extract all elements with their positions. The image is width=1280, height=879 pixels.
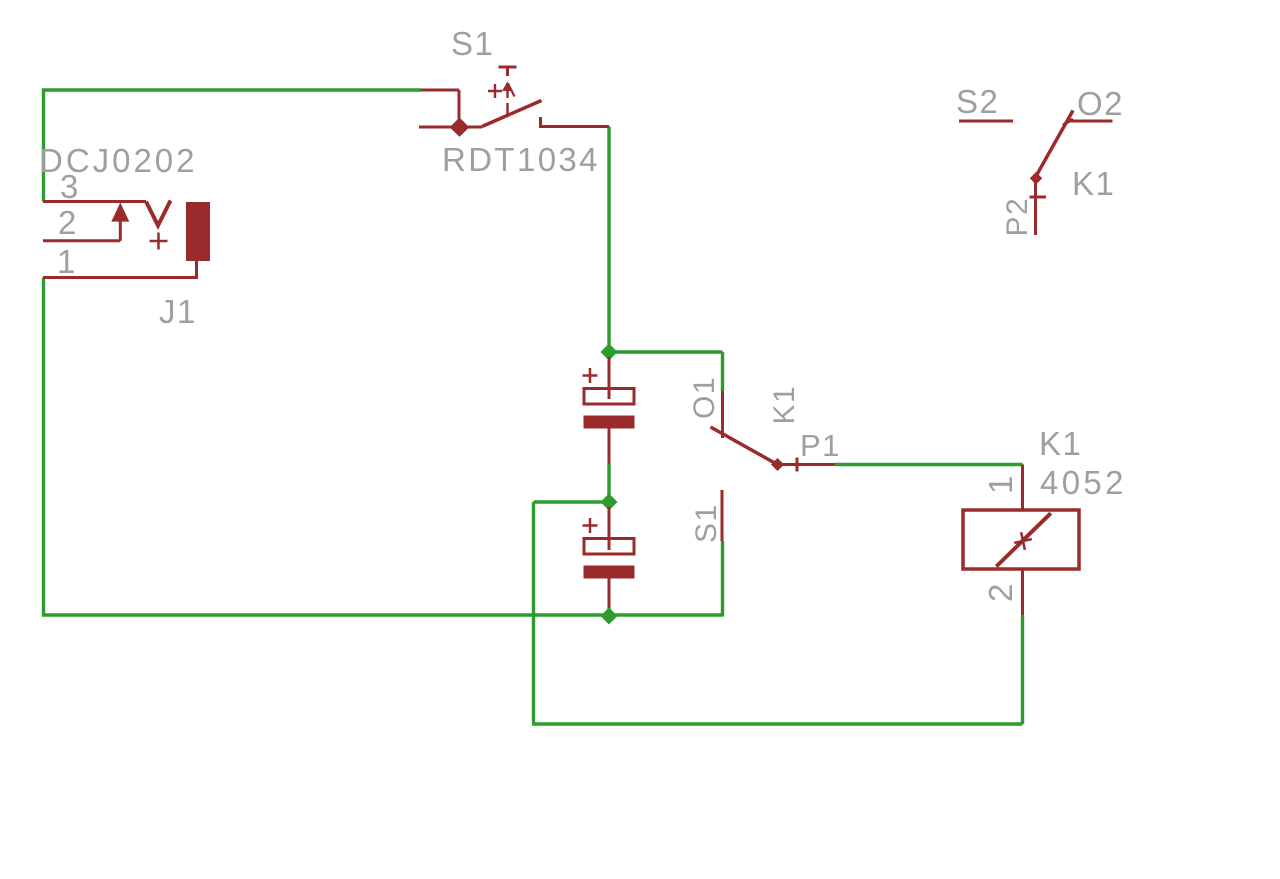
relay coil K1 diagonal — [996, 513, 1051, 566]
wire bottom horizontal rail — [42, 613, 723, 616]
svg-text:4052: 4052 — [1040, 464, 1125, 501]
capacitor C2 top stem — [608, 507, 611, 550]
connector J1 barrel stem — [195, 261, 198, 278]
svg-text:P2: P2 — [1001, 197, 1034, 237]
switch S1 actuator dashed link — [506, 103, 509, 114]
connector J1 spring contact V — [146, 201, 171, 226]
wire from top junction right and down to O1 contact — [609, 352, 723, 391]
switch S1 right terminal tick — [539, 117, 542, 127]
relay contact S2 stub — [959, 120, 1013, 123]
switch S1 actuator plus sign — [488, 84, 502, 98]
capacitor C2 bottom plate — [584, 566, 635, 579]
relay contact lever O1-P1 — [711, 427, 778, 465]
svg-text:K1: K1 — [1039, 425, 1082, 462]
capacitor C2 plus sign — [583, 518, 598, 533]
svg-text:K1: K1 — [1072, 165, 1115, 202]
wire left rail from J1 pin1 down to bottom rail — [42, 278, 45, 617]
svg-text:S2: S2 — [956, 83, 999, 120]
connector J1 switch arrow — [119, 220, 122, 241]
connector J1 barrel rectangle — [186, 202, 210, 261]
relay coil K1 pin1 stem — [1021, 465, 1024, 511]
wire net top horizontal from J1 pin3 rail to S1 — [42, 89, 421, 202]
connector J1 pin 3 line — [43, 200, 146, 203]
wire capacitor C2 bottom green segment — [607, 607, 610, 615]
switch S1 actuator T symbol — [499, 67, 517, 76]
capacitor C2 top plate — [584, 539, 634, 555]
wire from mid junction left, down and right to relay pin2 — [532, 502, 1023, 724]
relay contact S1 stub — [721, 490, 724, 541]
wire mid vertical from S1 right terminal to junction — [607, 127, 610, 353]
svg-text:RDT1034: RDT1034 — [442, 141, 599, 178]
relay contact lever O2-P2 — [1036, 111, 1074, 178]
switch S1 right terminal line — [539, 125, 609, 128]
junction node at top of C1 — [601, 344, 618, 361]
svg-text:1: 1 — [982, 474, 1019, 494]
connector J1 pin 2 line — [43, 239, 120, 242]
relay coil K1 cross tick — [1012, 530, 1033, 551]
relay coil K1 body — [963, 510, 1079, 569]
switch S1 pin P stub — [419, 126, 482, 129]
svg-text:2: 2 — [982, 582, 1019, 602]
relay contact pivot diamond P1 — [771, 458, 784, 471]
svg-text:O2: O2 — [1077, 85, 1124, 122]
relay contact P2 line — [1034, 177, 1037, 235]
relay contact pivot diamond P2 — [1030, 172, 1042, 185]
connector J1 pin 1 line — [43, 276, 198, 279]
relay contact P1 line — [778, 463, 836, 466]
relay contact P1 tick — [796, 458, 799, 472]
switch S1 lever — [482, 101, 542, 127]
capacitor C1 top stem — [608, 357, 611, 399]
junction node at bottom rail — [601, 608, 618, 625]
capacitor C2 bottom stem — [608, 579, 611, 609]
svg-text:P1: P1 — [800, 428, 841, 463]
relay contact P2 tick — [1030, 196, 1047, 199]
capacitor C1 bottom plate — [584, 416, 635, 429]
switch S1 left feed wire segments — [421, 90, 459, 127]
svg-text:3: 3 — [60, 168, 80, 205]
capacitor C1 bottom stem — [608, 429, 611, 464]
relay contact O2 tick — [1063, 119, 1073, 125]
connector J1 plus sign — [150, 233, 168, 250]
wire from P1 contact to relay pin1 — [835, 463, 1023, 466]
switch S1 pivot junction diamond — [450, 118, 470, 137]
svg-text:2: 2 — [58, 204, 78, 241]
capacitor C1 plus sign — [583, 368, 598, 383]
svg-text:1: 1 — [57, 243, 77, 280]
capacitor C1 top plate — [584, 389, 634, 405]
svg-text:O1: O1 — [688, 376, 721, 419]
switch S1 actuator arrow — [506, 83, 508, 98]
svg-text:J1: J1 — [159, 293, 197, 330]
junction node between C1 and C2 — [601, 494, 618, 511]
relay contact O2 stub — [1071, 120, 1113, 123]
svg-text:S1: S1 — [451, 25, 494, 62]
svg-text:S1: S1 — [690, 503, 723, 543]
relay contact O1 stub — [721, 391, 724, 438]
svg-text:K1: K1 — [768, 385, 801, 425]
wire right stub bottom vertical (to S1 contact) — [721, 541, 724, 617]
relay coil K1 pin2 stem — [1021, 569, 1024, 615]
wire capacitor C1 bottom green segment — [607, 464, 610, 503]
